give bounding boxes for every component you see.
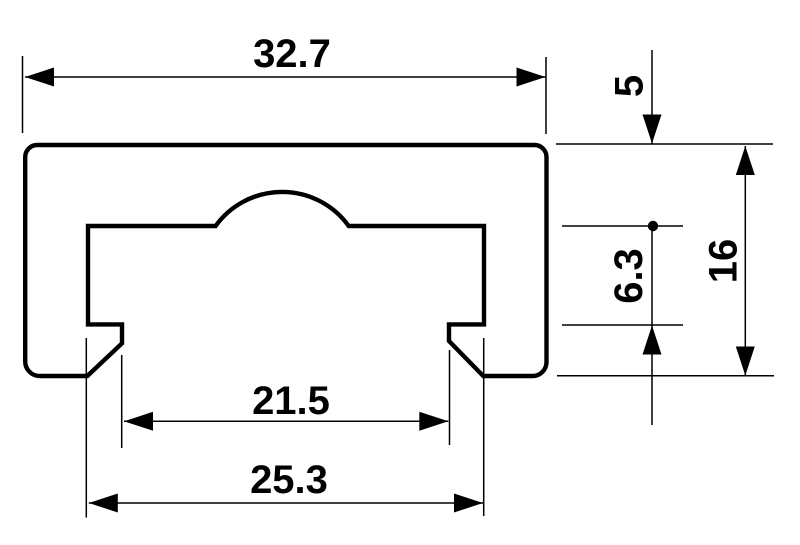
dimension 25.3 line	[89, 502, 483, 504]
dimension 32.7 extension line right	[545, 57, 547, 134]
dimension 21.5 arrow left	[124, 412, 153, 431]
dimension 32.7 extension line left	[22, 56, 24, 133]
bottom surface level line	[557, 375, 774, 377]
dimension 16 arrow down	[736, 347, 755, 376]
dimension 25.3 extension line left	[85, 338, 87, 518]
top surface level line	[556, 143, 773, 145]
svg-text:25.3: 25.3	[250, 458, 328, 502]
dimension 21.5 extension line left	[121, 355, 123, 448]
dimension 32.7 line	[25, 76, 546, 78]
svg-text:6.3: 6.3	[607, 248, 651, 304]
svg-text:5: 5	[608, 75, 652, 97]
dimension 32.7 arrow right	[517, 68, 546, 87]
svg-text:21.5: 21.5	[252, 379, 330, 423]
dimension 16 arrow up	[736, 146, 755, 175]
dimension 21.5 line	[124, 420, 448, 422]
dimension 16 line	[744, 146, 746, 376]
dimension 6.3 dot	[648, 221, 658, 231]
inner top level line	[562, 225, 683, 227]
dimension 25.3 arrow left	[89, 494, 118, 513]
dimension 5 line	[651, 50, 653, 144]
dimension 21.5 extension line right	[449, 350, 451, 445]
dimension 25.3 extension line right	[483, 338, 485, 516]
svg-text:32.7: 32.7	[253, 32, 331, 76]
dimension 21.5 arrow right	[419, 412, 448, 431]
dimension 32.7 arrow left	[25, 68, 54, 87]
ledge level line	[562, 324, 683, 326]
dimension 6.3 line	[651, 226, 653, 425]
dimension 6.3 arrow	[643, 326, 662, 355]
dimension 25.3 arrow right	[454, 494, 483, 513]
dimension 5 arrow	[643, 115, 662, 144]
svg-text:16: 16	[702, 239, 746, 284]
rail profile outline	[25, 145, 546, 376]
